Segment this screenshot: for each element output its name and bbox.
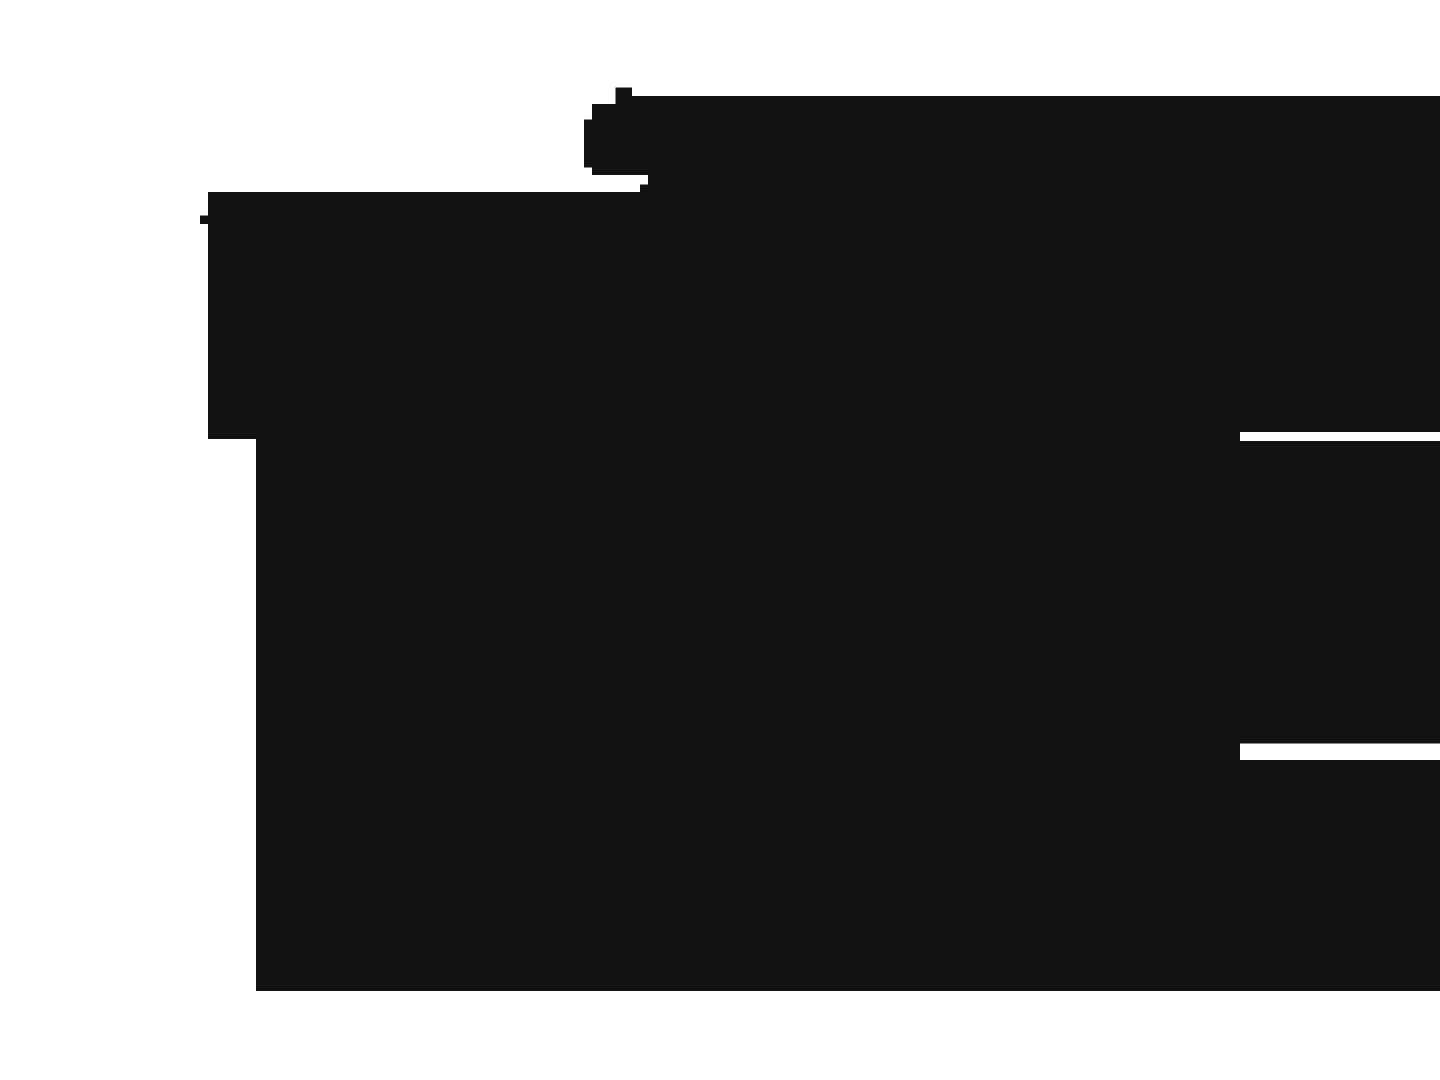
white stripe lower right [1240, 744, 1440, 761]
main dark mass right [648, 96, 1440, 991]
blob nub column [616, 88, 633, 176]
blob middle band [592, 104, 616, 175]
left tick [200, 216, 208, 225]
left column [208, 192, 256, 439]
blob left band [584, 120, 592, 168]
sliver between blob and gap [632, 96, 648, 175]
white stripe upper right [1240, 432, 1440, 441]
main dark mass lower-left [256, 192, 648, 991]
gap right step [640, 185, 648, 193]
